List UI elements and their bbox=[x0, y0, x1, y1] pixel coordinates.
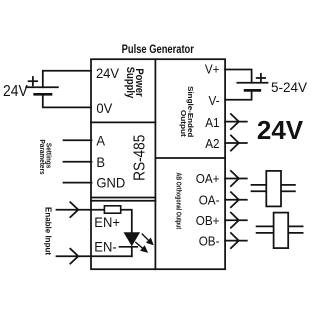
svg-text:EN+: EN+ bbox=[94, 214, 120, 230]
svg-text:OB-: OB- bbox=[199, 234, 220, 249]
svg-text:Enable Input: Enable Input bbox=[44, 207, 53, 255]
svg-text:B: B bbox=[96, 154, 105, 170]
svg-text:V+: V+ bbox=[205, 62, 220, 77]
svg-text:V-: V- bbox=[208, 94, 219, 109]
svg-text:A2: A2 bbox=[205, 136, 219, 151]
svg-text:0V: 0V bbox=[96, 100, 112, 116]
svg-text:24V: 24V bbox=[3, 82, 28, 100]
svg-text:AB Orthogonal Output: AB Orthogonal Output bbox=[174, 172, 182, 229]
svg-text:Pulse Generator: Pulse Generator bbox=[122, 43, 195, 56]
svg-text:EN-: EN- bbox=[94, 239, 116, 255]
svg-text:GND: GND bbox=[96, 175, 125, 191]
svg-text:Output: Output bbox=[179, 110, 187, 137]
svg-text:24V: 24V bbox=[257, 115, 304, 145]
svg-text:Supply: Supply bbox=[124, 67, 136, 99]
svg-text:RS-485: RS-485 bbox=[132, 135, 149, 181]
svg-text:Parameters: Parameters bbox=[38, 139, 45, 174]
svg-text:24V: 24V bbox=[96, 65, 119, 81]
svg-text:OA+: OA+ bbox=[196, 172, 220, 187]
svg-text:OA-: OA- bbox=[199, 193, 220, 208]
svg-text:OB+: OB+ bbox=[196, 213, 220, 228]
svg-text:A1: A1 bbox=[205, 115, 219, 130]
svg-text:A: A bbox=[96, 133, 105, 149]
svg-text:5-24V: 5-24V bbox=[271, 80, 307, 95]
